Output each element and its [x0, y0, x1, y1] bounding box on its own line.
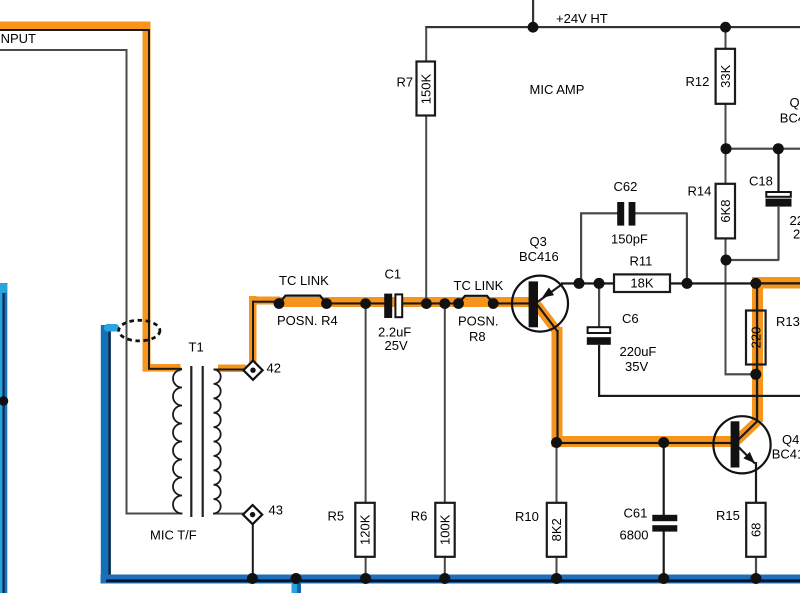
wire: Q3 emitter line through R11 to R13 node — [561, 282, 756, 284]
wire: ground bus dark core — [106, 579, 800, 582]
transformer T1 primary winding — [173, 370, 182, 514]
junction dots collector line — [551, 437, 562, 448]
svg-text:6800: 6800 — [620, 528, 649, 543]
wire: INPUT hot orange highlight top horizontal — [0, 22, 151, 30]
junction dot R13 bottom — [750, 369, 761, 380]
svg-text:BC414: BC414 — [772, 447, 800, 462]
capacitor C61 bottom plate — [652, 525, 677, 531]
wire: INPUT hot black line vertical — [148, 30, 150, 369]
resistor R14 6K8 — [716, 184, 735, 239]
wire: orange highlight node 42 corner to main line — [252, 297, 280, 305]
wire: R7 top lead — [425, 27, 427, 62]
resistor R7 150K — [417, 62, 436, 116]
wire: Q4 collector vertical to R15 — [755, 462, 757, 503]
wire: C61 top lead — [663, 446, 665, 516]
wire: R5 top lead — [365, 306, 367, 503]
svg-text:150pF: 150pF — [611, 232, 648, 247]
capacitor C62 right plate — [629, 202, 636, 226]
wire: node 42 black horizontal — [253, 301, 279, 303]
svg-text:BC416: BC416 — [780, 111, 800, 126]
wire: T1 primary top lead — [148, 368, 182, 370]
resistor R10 8K2 — [547, 503, 566, 557]
wire: black R13 vertical — [756, 285, 758, 421]
wire: black segment link1 to C1 — [326, 302, 385, 304]
wire: R7 bottom lead to main line — [425, 116, 427, 304]
wire: main signal orange highlight to Q3 base — [276, 297, 529, 307]
transistor Q4 circle — [713, 416, 770, 473]
svg-text:25V: 25V — [385, 338, 408, 353]
wire: T1 primary bottom lead — [126, 513, 183, 515]
wire: R6 bottom lead — [444, 557, 446, 576]
capacitor C18 bottom plate — [766, 199, 792, 207]
capacitor C6 bottom plate — [587, 337, 611, 345]
transformer T1 secondary winding — [214, 370, 221, 514]
junction dots R11 line — [574, 278, 585, 289]
svg-text:8K2: 8K2 — [549, 518, 564, 541]
junction dot R12/C18 — [721, 143, 732, 154]
wire: Q4 emitter black diagonal — [738, 421, 758, 440]
wire: orange highlight Q3 collector to Q4 base — [552, 436, 732, 447]
wire: R12 bottom lead — [725, 104, 727, 150]
wire: Q4 emitter orange diagonal — [737, 421, 758, 441]
node: junction on left edge blue line — [0, 396, 8, 406]
wire: Q3 collector black vertical — [556, 330, 558, 443]
wire: node 42 black vertical — [252, 301, 254, 362]
transformer T1 core line right — [202, 366, 204, 517]
svg-text:POSN.: POSN. — [458, 313, 498, 328]
wire: R5 bottom lead — [365, 557, 367, 576]
svg-text:220uF: 220uF — [620, 344, 657, 359]
wire: screen cable dark core vertical — [108, 328, 111, 580]
wire: ground bus blue highlight — [101, 575, 800, 584]
node 42 diamond — [243, 361, 262, 380]
wire: INPUT return gray vertical — [126, 49, 128, 514]
svg-text:C61: C61 — [624, 506, 648, 521]
svg-text:C1: C1 — [385, 266, 402, 281]
svg-text:42: 42 — [267, 361, 281, 376]
wire: T1 secondary bottom lead — [213, 513, 244, 515]
wire: orange highlight R13 branch horizontal to right edge — [752, 277, 800, 289]
svg-text:120K: 120K — [358, 514, 373, 545]
capacitor C62 left plate — [617, 202, 624, 226]
wire: INPUT hot black line top — [0, 29, 150, 31]
svg-text:BC416: BC416 — [519, 249, 559, 264]
wire: C62 right horizontal — [635, 212, 688, 214]
svg-text:Q3: Q3 — [530, 234, 547, 249]
wire: R14 chain to R13 node — [725, 373, 757, 375]
svg-text:6K8: 6K8 — [718, 200, 733, 223]
transistor Q4 emitter arrow — [743, 452, 758, 467]
junction dot R14 bottom — [721, 255, 732, 266]
svg-text:R14: R14 — [688, 184, 712, 199]
wire: R10 bottom lead — [556, 557, 558, 576]
transformer T1 core line left — [190, 366, 192, 517]
wire: orange highlight node 42 up — [249, 296, 257, 363]
svg-text:R6: R6 — [411, 508, 428, 523]
capacitor C1 left plate — [384, 294, 392, 318]
wire: R6 top lead — [444, 306, 446, 503]
transistor Q3 base bar — [529, 281, 538, 327]
capacitor C1 right plate — [395, 294, 402, 317]
svg-text:R10: R10 — [515, 509, 539, 524]
svg-text:150K: 150K — [419, 73, 434, 104]
svg-text:C6: C6 — [622, 311, 639, 326]
resistor R11 18K — [614, 274, 670, 292]
svg-text:R13: R13 — [776, 314, 800, 329]
wire: R14 bottom lead — [725, 238, 727, 261]
TC link 2 bridge — [459, 296, 494, 304]
resistor R13 220 — [746, 311, 766, 365]
svg-text:C18: C18 — [749, 173, 773, 188]
resistor R5 120K — [355, 503, 374, 557]
svg-text:T1: T1 — [189, 339, 204, 354]
svg-text:43: 43 — [269, 503, 283, 518]
resistor R15 68 — [746, 503, 765, 557]
wire: C6 return to right edge — [598, 395, 800, 397]
capacitor C61 top plate — [652, 515, 677, 521]
wire: INPUT return gray top horizontal — [0, 49, 128, 51]
svg-text:R15: R15 — [716, 508, 740, 523]
resistor R12 33K — [716, 49, 735, 104]
junction dots on +24V rail — [528, 22, 539, 33]
wire: ground stub below bus — [292, 581, 299, 593]
svg-text:220: 220 — [749, 327, 764, 349]
svg-text:33K: 33K — [718, 64, 733, 87]
wire: Q4 collector diagonal — [739, 448, 755, 464]
svg-text:TC LINK: TC LINK — [279, 273, 329, 288]
junction dots ground bus — [247, 573, 258, 584]
transistor Q4 base bar — [731, 421, 740, 467]
svg-text:68: 68 — [749, 523, 764, 537]
wire: R14 top lead — [725, 149, 727, 185]
svg-text:+24V HT: +24V HT — [556, 11, 608, 26]
svg-text:TC LINK: TC LINK — [454, 278, 504, 293]
svg-text:R11: R11 — [630, 254, 653, 269]
wire: C62 left vertical — [580, 213, 582, 283]
wire: C61 bottom lead — [663, 531, 665, 576]
svg-text:25V: 25V — [793, 226, 800, 241]
wire: R14 node down — [725, 261, 727, 375]
transistor Q3 emitter arrow — [539, 288, 554, 302]
wire: orange highlight node 42 to T1 secondary top — [218, 365, 246, 373]
wire: Q3 collector black diagonal — [538, 305, 558, 332]
wire: node 43 down to bus — [252, 524, 254, 576]
transistor Q3 circle — [512, 276, 568, 332]
svg-text:POSN. R4: POSN. R4 — [277, 313, 338, 328]
svg-text:MIC T/F: MIC T/F — [150, 528, 197, 543]
wire: C6 bottom lead — [598, 345, 600, 397]
svg-text:Q4: Q4 — [782, 432, 799, 447]
svg-text:35V: 35V — [625, 359, 648, 374]
TC link 1 bridge — [279, 296, 327, 304]
wire: black segment C1 to link2 — [403, 302, 460, 304]
wire: R10 top lead — [556, 446, 558, 503]
wire: C18 bottom to R14 node — [725, 259, 779, 261]
wire: C62 right vertical — [686, 213, 688, 283]
capacitor C18 top plate — [766, 192, 791, 197]
wire: screen cable blue vertical highlight — [101, 325, 109, 578]
wire: left edge blue line — [0, 283, 7, 593]
svg-text:R12: R12 — [686, 74, 710, 89]
svg-text:R7: R7 — [397, 75, 414, 90]
wire: Q3 collector orange diagonal — [537, 305, 559, 333]
junction dots main signal line — [274, 298, 285, 309]
svg-text:18K: 18K — [630, 276, 653, 291]
svg-text:R5: R5 — [328, 509, 345, 524]
wire: C6 top lead — [598, 284, 600, 327]
wire: T1 secondary top lead — [214, 369, 246, 371]
wire: +24V stub up from rail — [532, 0, 534, 27]
svg-text:Q5: Q5 — [790, 95, 800, 110]
wire: C18 bottom lead — [777, 207, 779, 260]
wire: INPUT hot orange stub to T1 primary top — [143, 364, 181, 372]
wire: black segment link2 to Q3 base — [494, 302, 529, 304]
wire: black Q3 collector to Q4 base — [557, 442, 731, 444]
svg-text:C62: C62 — [614, 179, 638, 194]
node 43 diamond — [243, 505, 262, 524]
cable screen dashed ellipse — [119, 320, 160, 341]
svg-text:MIC AMP: MIC AMP — [530, 82, 585, 97]
wire: black R13 branch horizontal — [755, 282, 800, 284]
resistor R6 100K — [435, 503, 454, 557]
wire: R12 node to C18 — [725, 148, 800, 150]
wire: +24V rail top — [425, 26, 800, 28]
svg-text:INPUT: INPUT — [0, 31, 36, 46]
wire: R12 top lead — [725, 28, 727, 49]
wire: C62 left horizontal — [580, 212, 618, 214]
wire: Q3 collector orange vertical — [552, 327, 563, 447]
wire: R15 bottom lead — [755, 557, 757, 576]
wire: Q3 emitter diagonal — [538, 284, 564, 303]
wire: orange highlight R13 vertical — [752, 281, 763, 422]
wire: C18 top lead — [777, 149, 779, 192]
wire: screen cable cyan start cap — [104, 324, 119, 332]
svg-text:R8: R8 — [469, 329, 486, 344]
capacitor C6 top plate — [588, 327, 611, 333]
wire: INPUT hot orange highlight vertical — [143, 22, 151, 372]
svg-text:100K: 100K — [438, 514, 453, 545]
